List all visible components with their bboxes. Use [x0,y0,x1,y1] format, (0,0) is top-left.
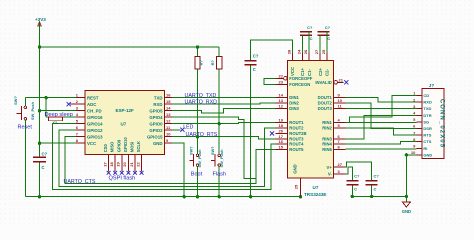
svg-text:GND: GND [292,164,297,173]
svg-text:UARTO_RTS: UARTO_RTS [186,132,218,138]
svg-text:14: 14 [166,106,171,111]
svg-text:C: C [253,67,256,72]
svg-text:RIN5: RIN5 [322,147,332,152]
svg-text:GPIO15: GPIO15 [147,134,163,139]
svg-text:C?: C? [253,54,259,59]
svg-text:ROUT1: ROUT1 [289,120,304,125]
svg-text:C?: C? [307,25,313,30]
svg-text:25: 25 [321,49,326,54]
svg-text:27: 27 [314,49,319,54]
svg-text:Boot: Boot [191,172,203,178]
svg-text:GPIO4: GPIO4 [149,115,163,120]
svg-text:DOUT1: DOUT1 [318,95,333,100]
svg-text:SCLK: SCLK [136,141,141,152]
svg-text:SW?: SW? [210,146,215,155]
svg-text:C: C [42,165,45,170]
svg-text:RTS: RTS [423,133,431,138]
svg-text:UARTO_TXD: UARTO_TXD [185,93,217,99]
svg-text:DIN3: DIN3 [289,106,299,111]
svg-text:26: 26 [303,49,308,54]
svg-text:SG: SG [423,119,429,124]
svg-text:GND: GND [402,209,411,214]
svg-text:GPIO10: GPIO10 [123,137,128,153]
svg-text:GND: GND [153,141,163,146]
svg-text:19: 19 [116,162,121,167]
svg-text:14: 14 [279,93,284,98]
svg-text:ROUT5: ROUT5 [289,147,304,152]
svg-text:19: 19 [279,118,284,123]
svg-text:RIN4: RIN4 [322,142,332,147]
svg-text:Flash: Flash [213,172,226,178]
svg-text:MOSI: MOSI [130,142,135,152]
svg-text:21: 21 [129,162,134,167]
svg-text:RXD: RXD [423,100,432,105]
svg-text:17: 17 [102,162,107,167]
svg-text:GPIO12: GPIO12 [87,128,103,133]
svg-text:18: 18 [279,123,284,128]
svg-text:13: 13 [279,98,284,103]
svg-text:15: 15 [166,99,171,104]
svg-text:DTR: DTR [423,113,431,118]
svg-text:12: 12 [279,103,284,108]
svg-text:23: 23 [279,79,284,84]
svg-text:GPIO2: GPIO2 [149,128,163,133]
svg-text:+3V3: +3V3 [35,17,46,22]
svg-text:C2+: C2+ [318,68,323,76]
svg-text:CS0: CS0 [103,144,108,153]
svg-text:GPIO9: GPIO9 [116,139,121,152]
svg-text:VCC: VCC [87,141,96,146]
svg-text:C: C [354,187,357,192]
svg-text:Reset: Reset [18,125,33,131]
svg-text:X?: X? [53,121,58,125]
svg-text:C2-: C2- [325,69,330,76]
svg-text:GPIO0: GPIO0 [149,121,163,126]
svg-text:C: C [374,187,377,192]
svg-text:GPIO14: GPIO14 [87,121,103,126]
svg-text:GND: GND [423,152,432,157]
svg-text:CH_PD: CH_PD [87,108,102,113]
svg-text:15: 15 [279,144,284,149]
svg-text:UARTO_RXD: UARTO_RXD [185,99,218,105]
svg-text:12: 12 [166,119,171,124]
svg-text:VCC: VCC [290,67,295,76]
svg-text:DIN2: DIN2 [289,101,299,106]
svg-text:17: 17 [279,134,284,139]
svg-text:REST: REST [87,95,99,100]
svg-text:QSPI flash: QSPI flash [109,175,136,181]
svg-text:U7: U7 [313,185,319,190]
svg-text:C?: C? [354,174,360,179]
svg-text:ROUT2: ROUT2 [289,126,304,131]
svg-text:SW_Push: SW_Push [30,101,35,120]
svg-text:GPIO16: GPIO16 [87,115,103,120]
svg-text:C: C [310,36,313,41]
svg-text:RIN2: RIN2 [322,126,332,131]
svg-text:UARTO_CTS: UARTO_CTS [64,179,96,185]
svg-text:18: 18 [109,162,114,167]
svg-text:TRS3243E: TRS3243E [304,192,326,197]
svg-text:C?: C? [325,25,331,30]
svg-text:TXD: TXD [154,95,163,100]
svg-text:C1+: C1+ [300,68,305,76]
svg-text:GPIO5: GPIO5 [149,108,163,113]
svg-text:28: 28 [287,49,292,54]
svg-text:16: 16 [279,139,284,144]
svg-text:DOUT3: DOUT3 [318,106,333,111]
svg-text:ROUT3: ROUT3 [289,136,304,141]
svg-text:CTS: CTS [423,139,431,144]
svg-text:R?: R? [199,60,204,66]
svg-text:C1-: C1- [307,69,312,76]
svg-text:SW?: SW? [13,96,18,105]
svg-text:DOUT2: DOUT2 [318,101,333,106]
svg-text:FORCEON: FORCEON [289,82,310,87]
svg-text:10: 10 [411,150,416,155]
svg-text:25: 25 [294,184,299,189]
svg-text:21: 21 [339,77,344,82]
svg-text:U7: U7 [121,122,127,127]
svg-text:22: 22 [135,162,140,167]
svg-text:24: 24 [296,49,301,54]
svg-text:LED: LED [183,125,193,131]
svg-text:CD: CD [423,93,429,98]
svg-text:SW_Push: SW_Push [197,149,202,168]
svg-text:27: 27 [338,162,343,167]
svg-text:SW?: SW? [188,146,193,155]
svg-text:DSR: DSR [423,126,432,131]
svg-text:RIN1: RIN1 [322,120,332,125]
svg-text:V-: V- [328,171,333,176]
svg-text:GPIO13: GPIO13 [87,134,103,139]
svg-text:J?: J? [429,83,435,88]
svg-text:DIN1: DIN1 [289,95,299,100]
svg-text:R?: R? [210,60,215,66]
svg-text:RIN3: RIN3 [322,136,332,141]
svg-text:ESP-12F: ESP-12F [116,108,135,113]
svg-text:13: 13 [166,112,171,117]
svg-text:MISO: MISO [110,141,115,152]
svg-text:RXD: RXD [153,102,162,107]
svg-text:CONN_02X05: CONN_02X05 [438,99,444,148]
svg-text:V+: V+ [327,165,333,170]
svg-text:20: 20 [122,162,127,167]
svg-text:C?: C? [42,152,48,157]
svg-text:RI: RI [423,146,427,151]
svg-text:20: 20 [279,128,284,133]
svg-text:10: 10 [338,98,343,103]
svg-text:SW_Push: SW_Push [219,149,224,168]
svg-text:10: 10 [166,132,171,137]
svg-text:ROUT4: ROUT4 [289,142,304,147]
svg-text:C?: C? [374,174,380,179]
svg-text:16: 16 [166,93,171,98]
svg-text:ADC: ADC [87,102,96,107]
svg-text:ROUT2B: ROUT2B [289,131,306,136]
svg-text:TXD: TXD [423,106,431,111]
svg-text:22: 22 [279,73,284,78]
svg-text:C: C [327,36,330,41]
svg-text:INVALID: INVALID [315,80,331,85]
